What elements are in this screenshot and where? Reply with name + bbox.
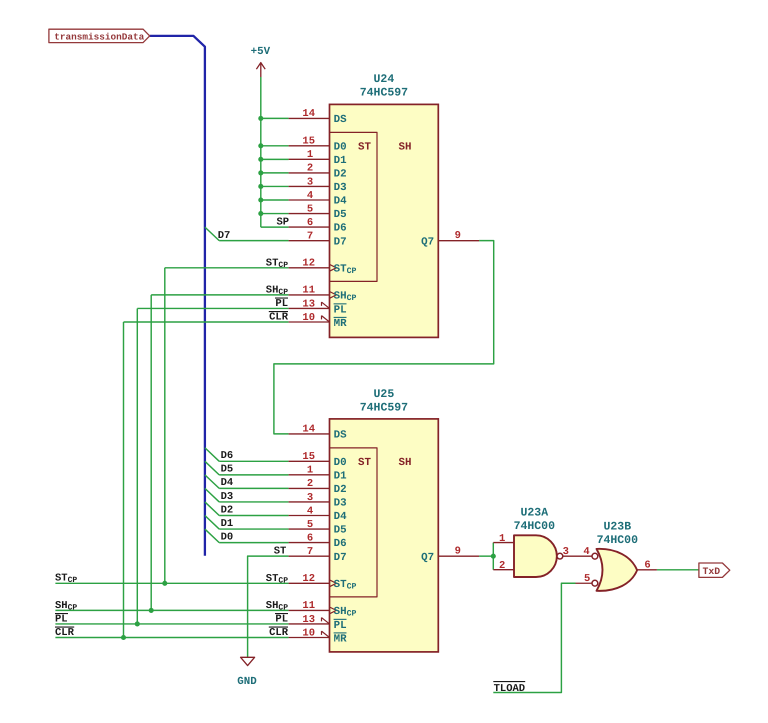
- svg-text:D3: D3: [221, 491, 234, 503]
- svg-text:D1: D1: [334, 155, 347, 167]
- svg-text:D3: D3: [334, 182, 347, 194]
- svg-text:ST: ST: [274, 546, 287, 558]
- svg-text:D5: D5: [334, 525, 347, 537]
- svg-text:2: 2: [307, 163, 313, 175]
- svg-text:DS: DS: [334, 114, 347, 126]
- svg-text:3: 3: [307, 492, 313, 504]
- svg-text:CLR: CLR: [269, 312, 289, 324]
- svg-text:SH: SH: [399, 141, 412, 153]
- svg-text:SHCP: SHCP: [266, 285, 288, 298]
- svg-text:ST: ST: [358, 141, 371, 153]
- svg-text:PL: PL: [55, 614, 68, 626]
- svg-text:STCP: STCP: [266, 257, 288, 270]
- svg-text:13: 13: [302, 614, 315, 626]
- svg-text:D4: D4: [221, 477, 234, 489]
- svg-text:transmissionData: transmissionData: [54, 32, 144, 43]
- svg-text:MR: MR: [334, 634, 347, 646]
- svg-text:D5: D5: [334, 209, 347, 221]
- svg-text:PL: PL: [275, 614, 288, 626]
- svg-text:SH: SH: [399, 457, 412, 469]
- svg-text:TLOAD: TLOAD: [494, 683, 526, 695]
- svg-text:10: 10: [302, 312, 315, 324]
- svg-text:74HC00: 74HC00: [597, 534, 639, 547]
- svg-text:D2: D2: [221, 504, 234, 516]
- svg-text:D6: D6: [221, 450, 234, 462]
- svg-text:12: 12: [302, 573, 315, 585]
- svg-text:CLR: CLR: [269, 627, 289, 639]
- svg-text:PL: PL: [275, 298, 288, 310]
- svg-text:4: 4: [307, 190, 313, 202]
- svg-text:PL: PL: [334, 305, 347, 317]
- svg-text:5: 5: [307, 519, 313, 531]
- svg-text:4: 4: [583, 546, 589, 558]
- svg-text:D5: D5: [221, 464, 234, 476]
- svg-text:1: 1: [307, 465, 313, 477]
- svg-text:SP: SP: [276, 217, 289, 229]
- svg-text:SHCP: SHCP: [55, 600, 77, 613]
- svg-text:D1: D1: [334, 470, 347, 482]
- svg-text:+5V: +5V: [251, 46, 271, 58]
- svg-text:D1: D1: [221, 518, 234, 530]
- svg-text:15: 15: [302, 451, 315, 463]
- svg-text:D7: D7: [334, 552, 347, 564]
- svg-text:D6: D6: [334, 538, 347, 550]
- svg-text:13: 13: [302, 298, 315, 310]
- svg-text:STCP: STCP: [266, 573, 288, 586]
- svg-text:1: 1: [307, 149, 313, 161]
- svg-text:D2: D2: [334, 484, 347, 496]
- svg-text:7: 7: [307, 230, 313, 242]
- svg-text:2: 2: [499, 560, 505, 572]
- svg-text:Q7: Q7: [421, 236, 434, 248]
- svg-text:ST: ST: [358, 457, 371, 469]
- svg-text:11: 11: [302, 600, 315, 612]
- svg-text:6: 6: [644, 559, 650, 571]
- svg-text:1: 1: [499, 533, 505, 545]
- svg-text:3: 3: [307, 176, 313, 188]
- svg-text:14: 14: [302, 424, 315, 436]
- svg-text:74HC00: 74HC00: [514, 520, 556, 533]
- svg-text:U24: U24: [374, 73, 395, 86]
- svg-text:3: 3: [563, 546, 569, 558]
- svg-text:10: 10: [302, 627, 315, 639]
- svg-text:STCP: STCP: [55, 573, 77, 586]
- svg-text:6: 6: [307, 532, 313, 544]
- svg-text:D4: D4: [334, 196, 347, 208]
- svg-text:12: 12: [302, 258, 315, 270]
- svg-text:U23B: U23B: [603, 521, 631, 534]
- svg-text:9: 9: [455, 230, 461, 242]
- svg-text:6: 6: [307, 217, 313, 229]
- svg-text:7: 7: [307, 546, 313, 558]
- svg-text:TxD: TxD: [703, 566, 721, 577]
- svg-text:9: 9: [455, 545, 461, 557]
- svg-text:11: 11: [302, 285, 315, 297]
- svg-text:D3: D3: [334, 498, 347, 510]
- svg-text:5: 5: [307, 203, 313, 215]
- svg-text:D2: D2: [334, 169, 347, 181]
- svg-text:Q7: Q7: [421, 552, 434, 564]
- svg-text:SHCP: SHCP: [266, 600, 288, 613]
- svg-text:D7: D7: [334, 236, 347, 248]
- svg-text:2: 2: [307, 478, 313, 490]
- svg-text:5: 5: [584, 573, 590, 585]
- svg-text:15: 15: [302, 136, 315, 148]
- svg-text:D6: D6: [334, 223, 347, 235]
- svg-text:CLR: CLR: [55, 627, 75, 639]
- svg-text:D7: D7: [218, 230, 231, 242]
- svg-text:PL: PL: [334, 620, 347, 632]
- svg-text:U25: U25: [374, 388, 395, 401]
- svg-text:MR: MR: [334, 318, 347, 330]
- svg-text:DS: DS: [334, 430, 347, 442]
- svg-text:D4: D4: [334, 511, 347, 523]
- svg-text:14: 14: [302, 108, 315, 120]
- svg-text:U23A: U23A: [520, 506, 548, 519]
- svg-text:D0: D0: [334, 457, 347, 469]
- svg-text:D0: D0: [334, 141, 347, 153]
- svg-text:4: 4: [307, 505, 313, 517]
- svg-text:D0: D0: [221, 531, 234, 543]
- svg-text:74HC597: 74HC597: [360, 402, 408, 415]
- svg-text:74HC597: 74HC597: [360, 86, 408, 99]
- svg-text:GND: GND: [237, 676, 257, 688]
